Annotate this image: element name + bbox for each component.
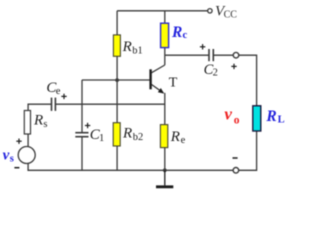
resistor Rb2 — [113, 123, 120, 146]
label vo — [224, 104, 239, 126]
svg-text:L: L — [278, 115, 285, 126]
wire base — [82, 79, 150, 81]
label Rc — [171, 24, 188, 41]
svg-text:c: c — [183, 30, 188, 41]
svg-text:1: 1 — [99, 133, 104, 144]
svg-text:o: o — [234, 115, 240, 127]
plus sign at C2 — [200, 44, 205, 49]
wire emitter diagonal — [151, 84, 163, 92]
wire collector diagonal — [151, 65, 164, 73]
wire C1 branch upper — [81, 80, 83, 132]
resistor Rs — [24, 111, 30, 135]
plus sign at Ce — [61, 94, 66, 99]
terminal output top circle — [233, 52, 239, 58]
svg-text:R: R — [122, 39, 132, 55]
ground — [156, 170, 173, 187]
wire Ce to emitter — [55, 103, 164, 105]
wire vs to rail — [27, 163, 29, 170]
resistor Rb1 — [113, 35, 120, 56]
capacitor C2 plates — [209, 49, 213, 61]
label Rb1 — [122, 39, 143, 56]
resistor Re — [160, 125, 167, 148]
node ground junction — [163, 168, 167, 172]
label Re — [170, 129, 186, 146]
label C1 — [90, 127, 104, 144]
wire Rb1 bottom lead — [116, 56, 118, 80]
minus sign at vs — [14, 167, 19, 169]
wire bottom rail — [27, 169, 233, 171]
plus sign at output — [231, 64, 236, 69]
svg-text:R: R — [265, 108, 276, 125]
label C2 — [204, 62, 218, 78]
terminal output bottom circle — [233, 168, 239, 174]
wire Rb2 bottom lead — [116, 146, 118, 170]
label VCC — [215, 3, 237, 20]
wire input corner to Rs — [28, 104, 51, 110]
svg-text:CC: CC — [224, 9, 238, 20]
wire Rc bottom lead to collector node — [164, 48, 166, 65]
svg-text:s: s — [10, 153, 14, 164]
svg-text:T: T — [169, 75, 178, 90]
resistor Rc — [161, 23, 169, 47]
svg-text:R: R — [171, 24, 182, 41]
svg-text:b1: b1 — [132, 46, 143, 57]
wire Rb2 top lead — [116, 80, 118, 123]
wire Re bottom lead — [164, 148, 166, 171]
capacitor Ce plates — [52, 98, 56, 111]
svg-text:R: R — [170, 129, 180, 145]
svg-text:b2: b2 — [133, 132, 144, 143]
label vs — [3, 147, 14, 164]
wire Rs to vs — [27, 134, 29, 147]
plus sign at C1 — [85, 123, 90, 128]
wire C2 to output terminal — [213, 54, 233, 56]
wire emitter vertical to Re — [164, 93, 166, 125]
source vs circle — [18, 147, 35, 164]
svg-text:e: e — [56, 86, 61, 97]
svg-text:v: v — [224, 104, 232, 123]
plus sign at vs — [16, 139, 21, 144]
svg-text:e: e — [181, 135, 186, 146]
svg-text:v: v — [3, 147, 10, 163]
label Rb2 — [122, 125, 143, 142]
label RL — [265, 108, 284, 126]
wire top rail — [117, 10, 208, 12]
wire C1 branch lower — [81, 137, 83, 170]
svg-text:R: R — [122, 125, 132, 141]
capacitor C1 plates — [75, 133, 88, 137]
terminal VCC circle — [208, 9, 212, 13]
transistor T base bar — [149, 69, 151, 89]
minus sign at output — [233, 157, 238, 159]
node base junction — [115, 78, 119, 82]
transistor T emitter arrow — [158, 88, 164, 94]
svg-text:R: R — [33, 113, 43, 129]
wire collector to C2 — [165, 54, 209, 56]
svg-text:2: 2 — [213, 67, 218, 78]
wire output terminal to RL corner — [239, 55, 257, 106]
label Rs — [33, 113, 47, 130]
svg-text:s: s — [43, 119, 47, 130]
wire Rc top lead — [164, 11, 166, 23]
label Ce — [46, 80, 60, 97]
resistor RL — [253, 106, 261, 131]
wire RL bottom lead — [239, 131, 257, 170]
wire Rb1 top lead — [116, 11, 118, 35]
